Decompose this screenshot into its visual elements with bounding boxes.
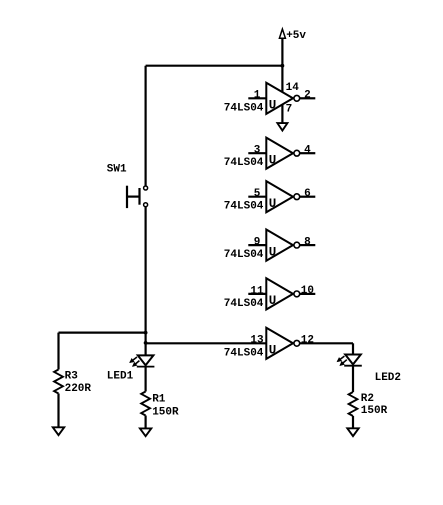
svg-text:SW1: SW1 [107, 163, 127, 175]
svg-text:6: 6 [304, 188, 311, 200]
svg-text:3: 3 [254, 145, 261, 157]
svg-text:U: U [269, 197, 277, 211]
svg-text:150R: 150R [361, 405, 388, 417]
svg-text:8: 8 [304, 236, 311, 248]
svg-text:13: 13 [250, 335, 264, 347]
svg-text:U: U [269, 294, 277, 308]
svg-text:U: U [269, 154, 277, 168]
svg-text:74LS04: 74LS04 [224, 102, 264, 114]
svg-text:74LS04: 74LS04 [224, 157, 264, 169]
svg-text:LED2: LED2 [375, 372, 401, 384]
svg-text:74LS04: 74LS04 [224, 347, 264, 359]
svg-text:14: 14 [286, 82, 300, 94]
svg-text:74LS04: 74LS04 [224, 201, 264, 213]
svg-text:R1: R1 [152, 394, 166, 406]
svg-text:150R: 150R [152, 406, 179, 418]
svg-text:4: 4 [304, 144, 311, 156]
svg-text:74LS04: 74LS04 [224, 298, 264, 310]
svg-text:R3: R3 [65, 370, 79, 382]
svg-text:+5v: +5v [286, 30, 306, 42]
svg-text:LED1: LED1 [107, 370, 134, 382]
svg-text:74LS04: 74LS04 [224, 249, 264, 261]
svg-text:220R: 220R [65, 383, 92, 395]
svg-text:5: 5 [254, 188, 261, 200]
svg-text:2: 2 [304, 90, 311, 102]
svg-text:U: U [269, 245, 277, 259]
svg-text:R2: R2 [361, 393, 374, 405]
svg-text:11: 11 [250, 285, 264, 297]
svg-text:7: 7 [286, 103, 293, 115]
svg-text:12: 12 [301, 335, 314, 347]
svg-text:10: 10 [301, 285, 314, 297]
svg-text:1: 1 [254, 90, 261, 102]
svg-text:U: U [269, 99, 277, 113]
svg-text:9: 9 [254, 237, 261, 249]
svg-text:U: U [269, 344, 277, 358]
